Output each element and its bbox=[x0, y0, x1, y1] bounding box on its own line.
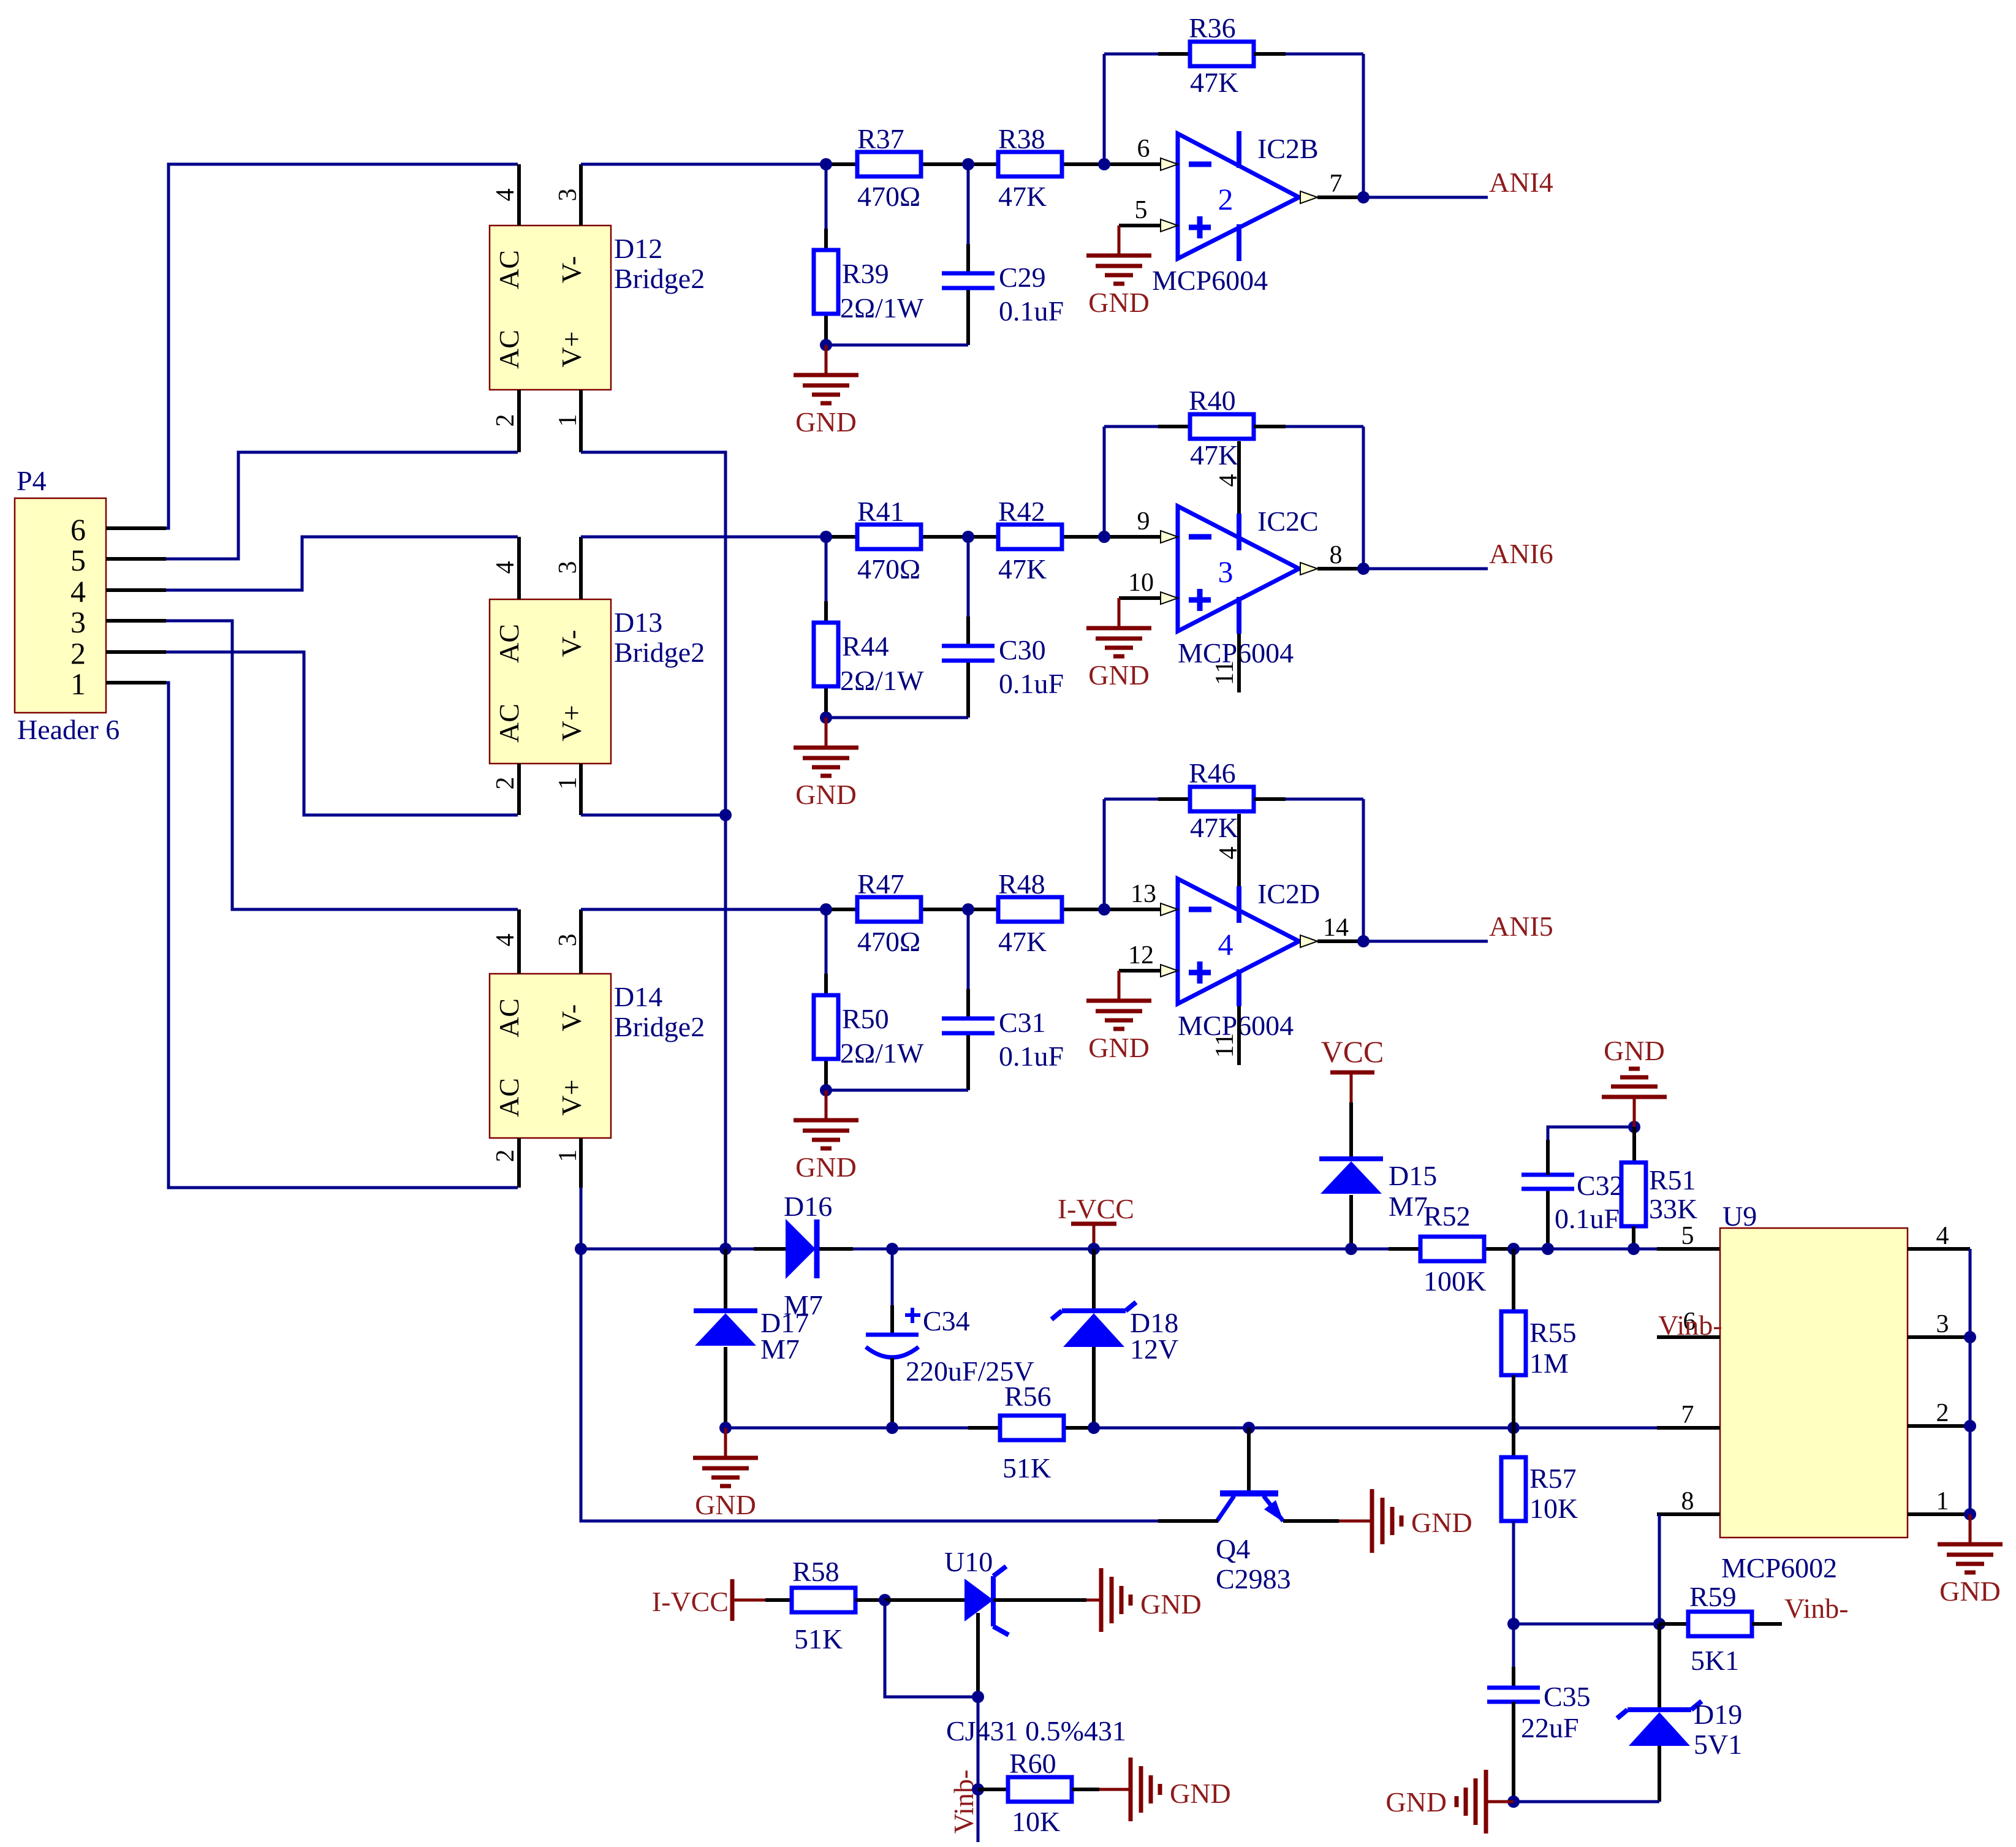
wire U10 cathode to ground bbox=[993, 1598, 1086, 1602]
junction bbox=[1098, 158, 1110, 170]
feedback resistor R40 47K bbox=[1103, 427, 1106, 537]
svg-text:4: 4 bbox=[491, 189, 520, 202]
junction bbox=[962, 903, 974, 916]
wire pin8 down bbox=[1658, 1514, 1661, 1624]
svg-text:33K: 33K bbox=[1649, 1193, 1697, 1224]
svg-text:3: 3 bbox=[554, 189, 582, 202]
svg-text:2: 2 bbox=[491, 1150, 520, 1162]
svg-text:GND: GND bbox=[1385, 1786, 1447, 1818]
junction bbox=[1542, 1243, 1554, 1255]
svg-text:MCP6004: MCP6004 bbox=[1152, 265, 1268, 296]
capacitor C32 0.1uF bbox=[1546, 1189, 1550, 1249]
svg-text:GND: GND bbox=[795, 1151, 857, 1183]
svg-text:R41: R41 bbox=[857, 496, 904, 527]
svg-text:Q4: Q4 bbox=[1216, 1533, 1250, 1564]
resistor R52 100K bbox=[1420, 1237, 1484, 1261]
svg-text:Bridge2: Bridge2 bbox=[614, 637, 705, 668]
svg-text:4: 4 bbox=[491, 561, 520, 574]
svg-text:5: 5 bbox=[1135, 196, 1148, 224]
net label ANI6 bbox=[1363, 567, 1488, 571]
svg-text:22uF: 22uF bbox=[1521, 1712, 1579, 1743]
svg-text:1M: 1M bbox=[1529, 1348, 1569, 1379]
svg-text:4: 4 bbox=[70, 574, 86, 609]
resistor R56 51K bbox=[1000, 1416, 1064, 1440]
wire P4.2 to D13.2 bbox=[166, 652, 518, 815]
svg-text:2Ω/1W: 2Ω/1W bbox=[840, 665, 924, 696]
wire bottom RC bbox=[826, 344, 968, 347]
svg-text:51K: 51K bbox=[1002, 1452, 1051, 1484]
svg-text:R55: R55 bbox=[1529, 1317, 1577, 1348]
wire P4.6 to D12.4 bbox=[166, 164, 518, 528]
svg-text:I-VCC: I-VCC bbox=[1058, 1193, 1134, 1224]
svg-text:47K: 47K bbox=[998, 553, 1047, 585]
svg-text:IC2C: IC2C bbox=[1257, 506, 1319, 537]
svg-text:5K1: 5K1 bbox=[1691, 1645, 1739, 1676]
svg-text:6: 6 bbox=[70, 512, 86, 547]
svg-text:R52: R52 bbox=[1423, 1200, 1471, 1232]
svg-text:C29: C29 bbox=[999, 262, 1046, 293]
ground sideways bbox=[1101, 1568, 1131, 1632]
svg-text:R44: R44 bbox=[842, 631, 889, 662]
non-inverting input pin bbox=[1119, 596, 1161, 600]
junction bbox=[1098, 903, 1110, 916]
wire P4.1 to D14.2 bbox=[166, 683, 518, 1188]
svg-text:GND: GND bbox=[1088, 287, 1150, 318]
junction bbox=[886, 1422, 898, 1434]
junction bbox=[1507, 1618, 1520, 1630]
wire P4.5 to D12.2 bbox=[166, 452, 518, 559]
resistor R58 51K bbox=[765, 1598, 792, 1602]
svg-text:CJ431 0.5%431: CJ431 0.5%431 bbox=[946, 1715, 1126, 1746]
svg-text:ANI6: ANI6 bbox=[1489, 538, 1553, 569]
svg-text:3: 3 bbox=[70, 605, 86, 639]
resistor R51 33K bbox=[1632, 1127, 1636, 1162]
svg-text:9: 9 bbox=[1137, 507, 1150, 536]
svg-text:C2983: C2983 bbox=[1216, 1563, 1291, 1595]
svg-text:1: 1 bbox=[1936, 1487, 1949, 1515]
svg-text:U10: U10 bbox=[944, 1546, 993, 1577]
transistor Q4 C2983 bbox=[1247, 1428, 1251, 1491]
pin stubs P4 bbox=[106, 526, 166, 530]
junction bbox=[820, 158, 832, 170]
svg-text:1: 1 bbox=[554, 777, 582, 790]
svg-text:0.1uF: 0.1uF bbox=[999, 295, 1064, 327]
resistor R55 1M bbox=[1512, 1249, 1515, 1311]
resistor R57 10K bbox=[1512, 1428, 1515, 1457]
svg-text:2Ω/1W: 2Ω/1W bbox=[840, 292, 924, 324]
wire D14.1 down left rail bbox=[581, 1188, 1158, 1521]
svg-text:D19: D19 bbox=[1694, 1699, 1742, 1730]
ground at non-inverting input bbox=[1118, 226, 1121, 256]
wire bottom RC bbox=[826, 1089, 968, 1092]
svg-text:4: 4 bbox=[1215, 847, 1243, 860]
wire P4.4 to D13.4 bbox=[166, 537, 518, 590]
junction bbox=[1653, 1618, 1665, 1630]
svg-text:R47: R47 bbox=[857, 868, 904, 900]
svg-text:2: 2 bbox=[491, 777, 520, 790]
U9 right pins 4 3 2 1 bbox=[1908, 1247, 1970, 1251]
inverting input pin bbox=[1104, 162, 1161, 166]
junction bbox=[820, 339, 832, 351]
svg-text:470Ω: 470Ω bbox=[857, 181, 920, 212]
ground bbox=[794, 1090, 858, 1148]
resistor R37 470 bbox=[826, 162, 857, 166]
junction bbox=[1628, 1121, 1640, 1133]
svg-text:M7: M7 bbox=[1389, 1191, 1428, 1222]
junction bbox=[820, 903, 832, 916]
svg-text:R57: R57 bbox=[1529, 1463, 1577, 1494]
svg-text:R60: R60 bbox=[1009, 1748, 1056, 1779]
wire bottom node bbox=[1514, 1800, 1659, 1803]
pin 6 stub with net label Vinb- bbox=[1657, 1335, 1720, 1339]
ground bbox=[1938, 1514, 2003, 1572]
svg-text:AC: AC bbox=[493, 624, 525, 663]
svg-text:R58: R58 bbox=[792, 1556, 839, 1587]
svg-text:V+: V+ bbox=[556, 705, 587, 741]
svg-text:2: 2 bbox=[1218, 182, 1233, 216]
wire D12.1 to V+ rail bbox=[581, 452, 726, 1249]
junction bbox=[1357, 935, 1370, 947]
bus wire I-VCC rail bbox=[581, 1248, 786, 1251]
svg-text:12: 12 bbox=[1128, 941, 1154, 969]
ground at non-inverting input bbox=[1118, 598, 1121, 628]
svg-text:2Ω/1W: 2Ω/1W bbox=[840, 1037, 924, 1069]
svg-text:0.1uF: 0.1uF bbox=[999, 668, 1064, 699]
svg-text:470Ω: 470Ω bbox=[857, 553, 920, 585]
wire right side to ground bbox=[1969, 1249, 1972, 1514]
junction bbox=[1345, 1243, 1357, 1255]
resistor R60 10K bbox=[978, 1788, 1008, 1791]
svg-text:U9: U9 bbox=[1722, 1200, 1757, 1232]
svg-text:47K: 47K bbox=[1190, 812, 1238, 843]
junction bbox=[1507, 1422, 1520, 1434]
svg-text:3: 3 bbox=[1218, 555, 1233, 589]
svg-text:R40: R40 bbox=[1189, 385, 1236, 416]
svg-text:5V1: 5V1 bbox=[1694, 1729, 1742, 1760]
svg-text:2: 2 bbox=[1936, 1399, 1949, 1427]
svg-text:D16: D16 bbox=[784, 1191, 832, 1222]
svg-text:D15: D15 bbox=[1389, 1160, 1437, 1191]
svg-text:7: 7 bbox=[1330, 170, 1343, 198]
ground bbox=[794, 345, 858, 403]
svg-text:GND: GND bbox=[1604, 1035, 1665, 1066]
non-inverting input pin bbox=[1119, 969, 1161, 973]
svg-text:IC2B: IC2B bbox=[1257, 133, 1319, 164]
diode D16 M7 bbox=[786, 1219, 816, 1279]
bridge rectifier D13 bbox=[490, 599, 611, 764]
junction bbox=[820, 531, 832, 543]
resistor R48 47K bbox=[968, 908, 998, 911]
zener diode D18 12V bbox=[1092, 1249, 1096, 1311]
svg-text:C34: C34 bbox=[923, 1305, 970, 1337]
bridge rectifier D12 bbox=[490, 226, 611, 390]
pin stubs on bus bbox=[754, 1247, 786, 1251]
feedback resistor R46 47K bbox=[1103, 799, 1106, 909]
wire R58 to U10 ref bbox=[885, 1600, 978, 1697]
svg-text:8: 8 bbox=[1681, 1487, 1694, 1515]
svg-text:3: 3 bbox=[554, 934, 582, 947]
junction bbox=[719, 809, 732, 821]
svg-text:MCP6002: MCP6002 bbox=[1721, 1552, 1837, 1583]
svg-text:6: 6 bbox=[1137, 135, 1150, 163]
output pin bbox=[1300, 563, 1317, 575]
ground bbox=[794, 718, 858, 776]
junction bbox=[1357, 191, 1370, 203]
wire feedback to output bbox=[1362, 799, 1365, 941]
svg-text:8: 8 bbox=[1330, 541, 1343, 569]
wire bridge V- to input node bbox=[581, 908, 826, 911]
diode D15 M7 bbox=[1349, 1102, 1353, 1159]
svg-text:GND: GND bbox=[1939, 1576, 2001, 1607]
svg-text:P4: P4 bbox=[17, 465, 47, 496]
svg-text:Vinb-: Vinb- bbox=[1658, 1310, 1722, 1341]
svg-text:R37: R37 bbox=[857, 123, 904, 154]
op-amp IC2D MCP6004 bbox=[1178, 879, 1299, 1004]
svg-text:V-: V- bbox=[556, 1004, 587, 1031]
ground bbox=[693, 1428, 758, 1486]
svg-text:D14: D14 bbox=[614, 981, 662, 1012]
svg-text:0.1uF: 0.1uF bbox=[1555, 1203, 1620, 1234]
capacitor C34 220uF/25V bbox=[891, 1249, 894, 1305]
svg-text:Bridge2: Bridge2 bbox=[614, 263, 705, 294]
svg-text:R39: R39 bbox=[842, 258, 889, 289]
svg-text:GND: GND bbox=[795, 406, 857, 438]
junction bbox=[1628, 1243, 1640, 1255]
svg-text:V-: V- bbox=[556, 256, 587, 283]
ground at non-inverting input bbox=[1118, 971, 1121, 1001]
junction bbox=[1357, 563, 1370, 575]
junction bbox=[1964, 1331, 1976, 1343]
svg-text:2: 2 bbox=[70, 636, 86, 670]
svg-text:47K: 47K bbox=[998, 181, 1047, 212]
svg-text:4: 4 bbox=[1218, 927, 1233, 961]
svg-text:4: 4 bbox=[1936, 1222, 1949, 1250]
svg-text:R56: R56 bbox=[1004, 1381, 1052, 1412]
junction bbox=[575, 1243, 587, 1255]
junction bbox=[972, 1691, 984, 1703]
svg-text:Bridge2: Bridge2 bbox=[614, 1011, 705, 1042]
resistor R38 47K bbox=[968, 162, 998, 166]
svg-text:V+: V+ bbox=[556, 331, 587, 367]
svg-text:10: 10 bbox=[1128, 569, 1154, 597]
svg-text:AC: AC bbox=[493, 330, 525, 369]
wire R57 to C35 node bbox=[1514, 1623, 1659, 1626]
shunt reference U10 CJ431 bbox=[885, 1598, 964, 1602]
wire P4.3 to D14.4 bbox=[166, 621, 518, 909]
svg-text:GND: GND bbox=[1088, 1032, 1150, 1063]
junction bbox=[719, 1422, 732, 1434]
svg-text:C30: C30 bbox=[999, 634, 1046, 666]
svg-text:GND: GND bbox=[695, 1489, 756, 1520]
op-amp IC2B MCP6004 bbox=[1178, 134, 1299, 259]
svg-text:14: 14 bbox=[1323, 914, 1349, 942]
svg-text:R38: R38 bbox=[998, 123, 1045, 154]
output pin bbox=[1300, 935, 1317, 947]
svg-text:Vinb-: Vinb- bbox=[1784, 1593, 1849, 1624]
svg-text:R48: R48 bbox=[998, 868, 1045, 900]
svg-text:Vinb-: Vinb- bbox=[948, 1770, 979, 1834]
svg-text:GND: GND bbox=[1411, 1507, 1472, 1538]
wire Q4 collector bbox=[1158, 1519, 1218, 1523]
svg-text:R42: R42 bbox=[998, 496, 1045, 527]
junction bbox=[1964, 1420, 1976, 1432]
svg-text:IC2D: IC2D bbox=[1257, 878, 1320, 909]
svg-text:C32: C32 bbox=[1577, 1170, 1624, 1201]
capacitor C29 0.1uF bbox=[967, 164, 970, 244]
non-inverting input pin bbox=[1119, 224, 1161, 227]
resistor R44 2ohm bbox=[825, 537, 828, 601]
ground sideways left bbox=[1486, 1800, 1514, 1803]
svg-text:5: 5 bbox=[70, 543, 86, 577]
junction bbox=[719, 1243, 732, 1255]
op-amp U9 MCP6002 bbox=[1720, 1228, 1908, 1538]
svg-text:GND: GND bbox=[795, 779, 857, 810]
wire V- mid rail bbox=[726, 1427, 1000, 1430]
svg-text:I-VCC: I-VCC bbox=[652, 1586, 729, 1617]
junction bbox=[820, 1084, 832, 1096]
svg-text:D13: D13 bbox=[614, 607, 662, 638]
svg-text:47K: 47K bbox=[1190, 67, 1238, 98]
svg-text:4: 4 bbox=[1215, 474, 1243, 487]
junction bbox=[820, 711, 832, 724]
wire bridge V- to input node bbox=[581, 536, 826, 539]
svg-text:GND: GND bbox=[1088, 659, 1150, 691]
wire D13.1 to V+ rail bbox=[581, 814, 726, 817]
svg-text:R46: R46 bbox=[1189, 757, 1236, 789]
svg-text:100K: 100K bbox=[1423, 1265, 1486, 1297]
junction bbox=[1507, 1243, 1520, 1255]
svg-text:AC: AC bbox=[493, 704, 525, 743]
capacitor C35 22uF bbox=[1512, 1624, 1515, 1667]
junction bbox=[962, 531, 974, 543]
junction bbox=[1098, 531, 1110, 543]
junction bbox=[879, 1594, 891, 1606]
svg-text:ANI4: ANI4 bbox=[1489, 167, 1553, 198]
ground sideways bbox=[1131, 1758, 1160, 1821]
capacitor C31 0.1uF bbox=[967, 909, 970, 989]
svg-text:ANI5: ANI5 bbox=[1489, 911, 1553, 942]
svg-text:3: 3 bbox=[554, 561, 582, 574]
power pin 4 bbox=[1237, 814, 1241, 886]
resistor R41 470 bbox=[826, 535, 857, 539]
op-amp IC2C MCP6004 bbox=[1178, 506, 1299, 631]
svg-text:AC: AC bbox=[493, 250, 525, 289]
feedback resistor R36 47K bbox=[1103, 54, 1106, 164]
svg-text:GND: GND bbox=[1170, 1778, 1231, 1809]
svg-text:7: 7 bbox=[1681, 1401, 1694, 1429]
svg-text:3: 3 bbox=[1936, 1310, 1949, 1338]
power pin 4 bbox=[1237, 441, 1241, 514]
resistor R39 2ohm bbox=[825, 164, 828, 229]
pin 8 stub bbox=[1657, 1512, 1720, 1516]
svg-text:470Ω: 470Ω bbox=[857, 926, 920, 957]
svg-text:R36: R36 bbox=[1189, 12, 1236, 44]
junction bbox=[1507, 1796, 1520, 1808]
wire Vinb- net bbox=[977, 1697, 980, 1842]
svg-text:10K: 10K bbox=[1529, 1493, 1578, 1524]
diode D17 M7 bbox=[724, 1249, 727, 1311]
wire bridge V- to input node bbox=[581, 163, 826, 166]
svg-text:51K: 51K bbox=[794, 1623, 843, 1655]
svg-text:47K: 47K bbox=[1190, 439, 1238, 471]
inverting input pin bbox=[1104, 535, 1161, 539]
svg-text:2: 2 bbox=[491, 414, 520, 427]
power pin 11 bbox=[1237, 634, 1241, 692]
svg-text:AC: AC bbox=[493, 1078, 525, 1117]
svg-text:47K: 47K bbox=[998, 926, 1047, 957]
output pin bbox=[1300, 191, 1317, 203]
resistor R50 2ohm bbox=[825, 909, 828, 974]
junction bbox=[1088, 1243, 1100, 1255]
svg-text:C35: C35 bbox=[1544, 1681, 1591, 1712]
svg-text:AC: AC bbox=[493, 998, 525, 1037]
svg-text:V+: V+ bbox=[556, 1079, 587, 1115]
svg-text:1: 1 bbox=[70, 667, 86, 701]
resistor R59 5K1 bbox=[1659, 1622, 1688, 1626]
inverting input pin bbox=[1104, 908, 1161, 911]
ground inverted bbox=[1602, 1069, 1667, 1127]
junction bbox=[962, 158, 974, 170]
zener diode D19 5V1 bbox=[1658, 1624, 1661, 1710]
svg-text:11: 11 bbox=[1211, 1033, 1239, 1058]
junction bbox=[1243, 1422, 1255, 1434]
svg-text:VCC: VCC bbox=[1321, 1034, 1384, 1069]
svg-text:R59: R59 bbox=[1689, 1581, 1737, 1612]
junction bbox=[1964, 1508, 1976, 1520]
svg-text:1: 1 bbox=[554, 414, 582, 427]
svg-text:13: 13 bbox=[1131, 880, 1156, 908]
svg-text:11: 11 bbox=[1211, 661, 1239, 685]
resistor R47 470 bbox=[826, 908, 857, 911]
svg-text:D12: D12 bbox=[614, 233, 662, 264]
svg-text:GND: GND bbox=[1140, 1588, 1202, 1620]
svg-text:5: 5 bbox=[1681, 1222, 1694, 1250]
capacitor C30 0.1uF bbox=[967, 537, 970, 616]
svg-text:1: 1 bbox=[554, 1150, 582, 1162]
svg-text:V-: V- bbox=[556, 630, 587, 657]
resistor R42 47K bbox=[968, 535, 998, 539]
junction bbox=[972, 1783, 984, 1796]
svg-text:12V: 12V bbox=[1130, 1333, 1178, 1365]
svg-text:4: 4 bbox=[491, 934, 520, 947]
net label ANI5 bbox=[1363, 940, 1488, 943]
svg-text:R51: R51 bbox=[1649, 1164, 1696, 1196]
wire Q4 emitter to ground bbox=[1283, 1519, 1339, 1523]
net label ANI4 bbox=[1363, 196, 1488, 199]
ground sideways bbox=[1372, 1489, 1401, 1553]
connector P4 Header 6 bbox=[15, 498, 106, 713]
svg-text:M7: M7 bbox=[760, 1333, 800, 1365]
wire feedback to output bbox=[1362, 427, 1365, 569]
wire feedback to output bbox=[1362, 54, 1365, 197]
svg-text:C31: C31 bbox=[999, 1007, 1046, 1038]
power pin 11 bbox=[1237, 1006, 1241, 1065]
svg-text:10K: 10K bbox=[1012, 1806, 1060, 1837]
svg-text:0.1uF: 0.1uF bbox=[999, 1041, 1064, 1072]
svg-text:R50: R50 bbox=[842, 1003, 889, 1034]
bridge rectifier D14 bbox=[490, 974, 611, 1138]
junction bbox=[886, 1243, 898, 1255]
svg-text:Header 6: Header 6 bbox=[17, 714, 119, 745]
junction bbox=[1088, 1422, 1100, 1434]
wire bottom RC bbox=[826, 716, 968, 719]
